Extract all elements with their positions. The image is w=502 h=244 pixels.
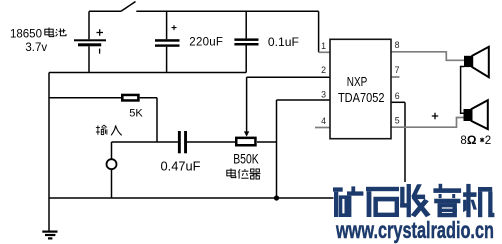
svg-text:1: 1: [321, 41, 326, 51]
svg-text:3: 3: [321, 90, 326, 100]
svg-text:B50K: B50K: [233, 152, 259, 167]
svg-text:2: 2: [321, 65, 326, 75]
svg-text:2: 2: [485, 135, 491, 147]
svg-text:6: 6: [395, 91, 400, 101]
svg-text:www.crystalradio.cn: www.crystalradio.cn: [335, 217, 494, 243]
svg-text:TDA7052: TDA7052: [338, 91, 385, 105]
svg-text:3.7v: 3.7v: [25, 42, 47, 54]
svg-text:220uF: 220uF: [189, 36, 223, 48]
svg-text:5: 5: [395, 115, 400, 125]
svg-text:4: 4: [321, 116, 326, 126]
svg-text:0.1uF: 0.1uF: [268, 35, 299, 49]
svg-text:8: 8: [460, 135, 466, 147]
svg-text:5K: 5K: [129, 108, 143, 120]
svg-text:8: 8: [395, 40, 400, 50]
svg-text:Ω: Ω: [467, 133, 477, 147]
svg-text:0.47uF: 0.47uF: [161, 160, 201, 174]
svg-text:7: 7: [395, 65, 400, 75]
svg-text:NXP: NXP: [347, 75, 368, 89]
svg-text:18650: 18650: [10, 29, 42, 41]
